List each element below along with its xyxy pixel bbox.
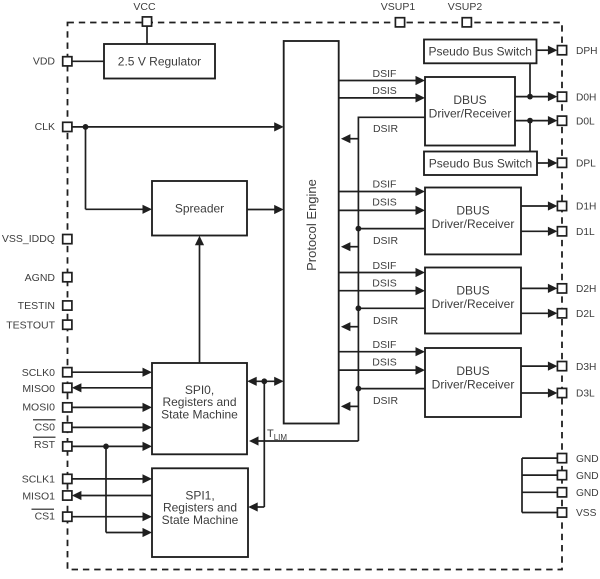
svg-text:VSUP1: VSUP1 xyxy=(381,1,416,13)
node RST junction xyxy=(103,444,109,450)
svg-text:TESTOUT: TESTOUT xyxy=(6,319,55,331)
node CLK junction xyxy=(83,124,89,130)
svg-text:Pseudo Bus Switch: Pseudo Bus Switch xyxy=(429,45,532,59)
svg-text:D2L: D2L xyxy=(576,309,595,320)
wire D2L xyxy=(521,309,557,318)
pin GND 1 xyxy=(557,454,598,465)
pin RST xyxy=(33,437,72,451)
wire DBUS return channel 2 xyxy=(356,305,426,311)
pin GND 3 xyxy=(557,488,598,499)
wire MOSI0 to SPI0 xyxy=(72,403,152,412)
SPI0 Registers and State Machine block xyxy=(152,363,247,454)
svg-text:DBUS: DBUS xyxy=(456,364,489,378)
svg-text:VSS: VSS xyxy=(576,508,597,519)
label TLIM xyxy=(267,428,287,442)
pin D3H xyxy=(557,362,596,373)
wire D0L xyxy=(515,116,557,125)
pin D0H xyxy=(557,92,596,103)
svg-text:TESTIN: TESTIN xyxy=(18,300,55,312)
DBUS Driver/Receiver block channel 1 xyxy=(425,188,521,255)
svg-text:VSUP2: VSUP2 xyxy=(448,1,483,13)
wire DSIS channel 2 xyxy=(339,286,425,295)
wire GND-VSS bracket xyxy=(522,458,557,512)
svg-text:DSIR: DSIR xyxy=(373,235,399,247)
SPI1 Registers and State Machine block xyxy=(152,468,248,557)
svg-text:DSIF: DSIF xyxy=(373,339,397,351)
svg-text:Spreader: Spreader xyxy=(175,202,224,216)
Pseudo Bus Switch block U1 xyxy=(424,40,537,64)
svg-text:DSIR: DSIR xyxy=(373,315,399,327)
svg-text:MISO1: MISO1 xyxy=(22,490,55,502)
wire U1 to D0H line xyxy=(529,63,531,96)
svg-text:GND: GND xyxy=(576,454,599,465)
svg-text:CLK: CLK xyxy=(35,121,55,133)
wire D3L xyxy=(521,388,557,397)
label DSIS channel 3 xyxy=(372,357,397,369)
svg-text:VCC: VCC xyxy=(133,1,156,13)
wire D0H xyxy=(515,92,557,101)
wire DBUS return channel 0 xyxy=(358,116,425,118)
svg-text:SCLK1: SCLK1 xyxy=(22,473,55,485)
pin D1H xyxy=(557,201,596,212)
svg-text:CS1: CS1 xyxy=(35,511,56,523)
wire D2H xyxy=(521,284,557,293)
node D0L junction xyxy=(527,118,533,124)
wire MISO1 from SPI1 xyxy=(72,491,152,500)
label DSIF channel 2 xyxy=(373,260,397,272)
pin GND 2 xyxy=(557,471,598,482)
svg-text:Driver/Receiver: Driver/Receiver xyxy=(432,297,515,311)
pin VSUP1 xyxy=(381,1,416,27)
svg-text:DSIF: DSIF xyxy=(373,68,397,80)
svg-text:DSIS: DSIS xyxy=(372,85,397,97)
wire DSIS channel 1 xyxy=(339,206,425,215)
node D0H junction xyxy=(527,94,533,100)
svg-text:Driver/Receiver: Driver/Receiver xyxy=(432,377,515,391)
label DSIS channel 2 xyxy=(372,277,397,289)
wire DSIR channel 0 xyxy=(341,134,359,143)
svg-text:State Machine: State Machine xyxy=(162,513,239,527)
wire DSIR channel 3 xyxy=(341,402,359,411)
pin TESTOUT xyxy=(6,319,72,331)
wire DSIS channel 3 xyxy=(339,366,425,375)
wire SCLK1 to SPI1 xyxy=(72,474,152,483)
wire DSIF channel 0 xyxy=(339,76,425,85)
svg-text:D3L: D3L xyxy=(576,389,595,400)
DBUS Driver/Receiver block channel 3 xyxy=(425,348,521,417)
wire VCC to regulator xyxy=(146,26,148,44)
svg-text:D3H: D3H xyxy=(576,362,596,373)
svg-text:DSIS: DSIS xyxy=(372,277,397,289)
pin VSS_IDDQ xyxy=(2,233,72,245)
wire Spreader to Protocol Engine xyxy=(247,205,284,214)
svg-text:D1H: D1H xyxy=(576,202,596,213)
wire SPI0 to Protocol Engine bus xyxy=(247,377,284,386)
wire DBUS return channel 3 xyxy=(356,386,426,392)
pin D2H xyxy=(557,284,596,295)
svg-text:DSIF: DSIF xyxy=(373,178,397,190)
svg-text:Driver/Receiver: Driver/Receiver xyxy=(432,217,515,231)
svg-text:D0L: D0L xyxy=(576,116,595,127)
svg-text:Protocol Engine: Protocol Engine xyxy=(304,179,319,271)
label DSIF channel 1 xyxy=(373,178,397,190)
wire DBUS return channel 1 xyxy=(356,226,426,232)
DBUS Driver/Receiver block channel 2 xyxy=(425,268,521,334)
node SPI bus junction xyxy=(261,378,267,384)
svg-text:SCLK0: SCLK0 xyxy=(22,367,55,379)
svg-text:State Machine: State Machine xyxy=(161,407,238,421)
wire Pseudo Bus Switch U1 to DPH xyxy=(537,46,558,55)
label DSIF channel 3 xyxy=(373,339,397,351)
label DSIS channel 0 xyxy=(372,85,397,97)
svg-text:MISO0: MISO0 xyxy=(22,383,55,395)
wire MISO0 from SPI0 xyxy=(72,383,152,392)
DBUS Driver/Receiver block channel 0 xyxy=(425,77,515,146)
svg-text:DSIF: DSIF xyxy=(373,260,397,272)
Protocol Engine block xyxy=(284,41,339,424)
wire D0L to U2 xyxy=(529,121,531,152)
svg-text:DPL: DPL xyxy=(576,159,596,170)
pin AGND xyxy=(25,272,72,284)
pin DPL xyxy=(557,158,596,169)
label DSIR channel 1 xyxy=(373,235,399,247)
wire RST to SPI0 xyxy=(72,442,152,451)
label DSIR channel 3 xyxy=(373,395,399,407)
svg-text:MOSI0: MOSI0 xyxy=(22,402,55,414)
wire SPI0 to Spreader xyxy=(195,236,204,363)
wire CLK branch to Spreader xyxy=(86,127,153,214)
2.5 V Regulator block xyxy=(104,44,215,79)
pin CLK xyxy=(35,121,72,133)
wire DSIR channel 1 xyxy=(341,242,359,251)
pin MISO0 xyxy=(22,383,72,395)
svg-text:DSIR: DSIR xyxy=(373,395,399,407)
svg-text:DSIS: DSIS xyxy=(372,357,397,369)
pin SCLK1 xyxy=(22,473,72,485)
pin DPH xyxy=(557,46,597,57)
pin D3L xyxy=(557,388,595,399)
IC boundary (dashed) xyxy=(68,23,563,570)
wire D3H xyxy=(521,362,557,371)
pin VDD xyxy=(33,56,72,68)
svg-text:DBUS: DBUS xyxy=(456,284,489,298)
wire VDD to regulator xyxy=(72,60,104,62)
svg-text:D0H: D0H xyxy=(576,92,596,103)
label DSIF channel 0 xyxy=(373,68,397,80)
svg-text:DSIR: DSIR xyxy=(373,123,399,135)
wire CLK to Protocol Engine xyxy=(72,122,284,131)
svg-text:Pseudo Bus Switch: Pseudo Bus Switch xyxy=(429,157,532,171)
pin D0L xyxy=(557,116,595,127)
wire DSIF channel 3 xyxy=(339,347,425,356)
svg-text:DSIS: DSIS xyxy=(372,197,397,209)
wire SCLK0 to SPI0 xyxy=(72,368,152,377)
pin VSS xyxy=(557,508,596,519)
wire TLIM rail xyxy=(249,117,358,446)
svg-text:DBUS: DBUS xyxy=(456,204,489,218)
pin D2L xyxy=(557,309,595,320)
pin CS1 xyxy=(32,509,72,522)
label DSIS channel 1 xyxy=(372,197,397,209)
Pseudo Bus Switch block U2 xyxy=(424,152,537,176)
wire DSIF channel 2 xyxy=(339,268,425,277)
pin MOSI0 xyxy=(22,402,72,414)
label DSIR channel 0 xyxy=(373,123,399,135)
svg-text:CS0: CS0 xyxy=(35,421,56,433)
pin SCLK0 xyxy=(22,367,72,379)
wire SPI bus branch to SPI1 xyxy=(248,381,264,511)
wire D1L xyxy=(521,227,557,236)
Spreader block xyxy=(152,181,247,236)
svg-text:VDD: VDD xyxy=(33,56,56,68)
svg-text:D1L: D1L xyxy=(576,227,595,238)
wire RST branch to SPI1 xyxy=(106,446,152,537)
svg-text:DPH: DPH xyxy=(576,46,598,57)
svg-text:DBUS: DBUS xyxy=(453,93,486,107)
svg-text:Driver/Receiver: Driver/Receiver xyxy=(429,106,512,120)
svg-text:GND: GND xyxy=(576,471,599,482)
svg-text:RST: RST xyxy=(34,439,56,451)
wire DSIS channel 0 xyxy=(339,93,425,102)
svg-text:VSS_IDDQ: VSS_IDDQ xyxy=(2,233,55,245)
pin CS0 xyxy=(33,420,72,434)
pin MISO1 xyxy=(22,490,72,502)
label DSIR channel 2 xyxy=(373,315,399,327)
svg-text:AGND: AGND xyxy=(25,272,56,284)
wire Pseudo Bus Switch U2 to DPL xyxy=(537,158,557,167)
wire D1H xyxy=(521,201,557,210)
svg-text:GND: GND xyxy=(576,488,599,499)
pin TESTIN xyxy=(18,300,72,312)
svg-text:2.5 V Regulator: 2.5 V Regulator xyxy=(118,55,201,69)
pin VSUP2 xyxy=(448,1,483,27)
wire CS1 to SPI1 xyxy=(72,512,152,521)
wire DSIF channel 1 xyxy=(339,187,425,196)
pin VCC xyxy=(133,1,156,26)
pin D1L xyxy=(557,227,595,238)
wire DSIR channel 2 xyxy=(341,322,359,331)
svg-text:D2H: D2H xyxy=(576,284,596,295)
wire CS0 to SPI0 xyxy=(72,423,152,432)
